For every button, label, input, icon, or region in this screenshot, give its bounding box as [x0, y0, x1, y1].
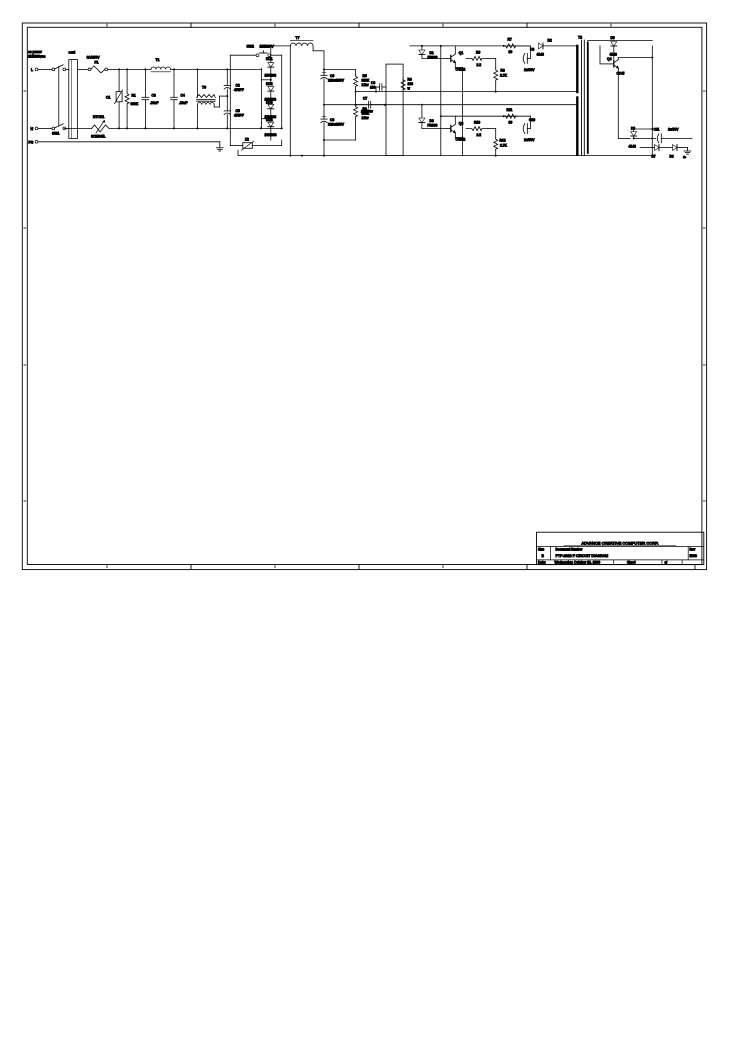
- title block frame: [537, 532, 704, 564]
- svg-text:R8: R8: [501, 69, 505, 73]
- resistor R9 330K: [354, 105, 358, 119]
- wire HV rail B: [356, 104, 577, 106]
- svg-text:D2: D2: [548, 39, 552, 43]
- svg-text:Wednesday, October 13, 1999: Wednesday, October 13, 1999: [555, 560, 601, 564]
- capacitor C10 1u/50V: [496, 128, 521, 130]
- svg-text:de: de: [683, 155, 687, 159]
- zone tick marks left: [24, 90, 26, 92]
- resistor R12 2.7K: [494, 137, 498, 151]
- wire Q1 collector: [454, 46, 456, 54]
- node L2: [126, 68, 128, 70]
- wire N to SW1: [38, 127, 52, 129]
- svg-text:.33uF: .33uF: [150, 101, 158, 105]
- terminal N: [35, 127, 38, 130]
- resistor R6 2.2: [463, 57, 472, 59]
- connector cord: [69, 60, 78, 139]
- wire C7 to drive transformer: [385, 104, 386, 106]
- wire HV rail A: [356, 91, 577, 93]
- svg-text:39: 39: [509, 121, 513, 125]
- svg-text:SW1: SW1: [52, 132, 59, 136]
- node L1: [118, 68, 120, 70]
- wire HV mid rail: [324, 104, 356, 106]
- svg-text:R4: R4: [408, 78, 412, 82]
- svg-text:Date:: Date:: [538, 560, 546, 564]
- svg-text:.33uF: .33uF: [179, 101, 187, 105]
- resistor R7 39: [504, 44, 518, 48]
- ground aux: [687, 147, 689, 150]
- wire N line through doubler: [192, 127, 282, 129]
- terminal FG: [35, 140, 38, 143]
- switch SW1 link: [58, 66, 60, 125]
- svg-text:4148: 4148: [537, 53, 545, 57]
- wire bridge left rail: [261, 68, 263, 127]
- node L3: [144, 68, 146, 70]
- node bottom bus 1: [289, 155, 291, 157]
- wire T2 primary bottom: [576, 155, 578, 156]
- capacitor C2 470PF: [226, 69, 228, 85]
- svg-text:R1: R1: [132, 94, 136, 98]
- svg-text:FR906: FR906: [428, 56, 438, 60]
- svg-text:R6: R6: [476, 51, 480, 55]
- svg-text:D5: D5: [611, 36, 615, 40]
- svg-text:Z2: Z2: [245, 138, 249, 142]
- wire aux emitter row: [618, 147, 640, 149]
- transformer T2 core: [581, 40, 583, 156]
- capacitor C7 1u/400v: [356, 104, 367, 106]
- resistor R4 100: [401, 78, 405, 92]
- svg-text:C3: C3: [152, 94, 156, 98]
- wire vertical bus A: [440, 46, 442, 156]
- svg-text:R10: R10: [474, 121, 480, 125]
- wire T2 primary top: [530, 45, 577, 47]
- svg-text:Rev: Rev: [690, 547, 696, 551]
- transformer T2 secondary winding: [587, 43, 589, 153]
- wire Q4 emitter down: [617, 68, 619, 138]
- capacitor C8A 1u/50V: [496, 57, 521, 59]
- node N2: [126, 127, 128, 129]
- svg-text:4148: 4148: [629, 145, 637, 149]
- svg-text:FR906: FR906: [428, 124, 438, 128]
- svg-text:PTP-2018 F CIRCUIT DIAGRAM: PTP-2018 F CIRCUIT DIAGRAM: [556, 554, 609, 558]
- wire Q1 base line: [422, 57, 447, 59]
- resistor R1 680K: [126, 69, 128, 91]
- svg-text:C5: C5: [236, 109, 240, 113]
- svg-text:ENG: ENG: [690, 554, 698, 558]
- diode D1 FR906: [421, 46, 423, 50]
- resistor R10 2.2: [466, 127, 488, 131]
- svg-text:39: 39: [509, 50, 513, 54]
- svg-text:Q1: Q1: [459, 51, 464, 55]
- svg-text:115/230vac: 115/230vac: [28, 55, 46, 59]
- wire SW2 left down: [230, 54, 256, 56]
- svg-text:T1: T1: [156, 58, 160, 62]
- svg-text:DD4: DD4: [266, 118, 273, 122]
- svg-text:D1: D1: [430, 51, 434, 55]
- wire connector to fuse F1: [78, 68, 89, 70]
- svg-text:R7: R7: [508, 38, 512, 42]
- diode D8 4148: [673, 145, 678, 151]
- wire Q3 base line: [422, 128, 447, 130]
- svg-text:ac power: ac power: [28, 50, 43, 54]
- svg-text:C11: C11: [654, 128, 660, 132]
- svg-text:Document Number: Document Number: [556, 547, 584, 551]
- svg-text:680K: 680K: [131, 102, 140, 106]
- capacitor C9 100: [382, 86, 386, 88]
- svg-text:C1: C1: [106, 96, 110, 100]
- wire Q1 emitter: [454, 63, 456, 68]
- transformer T6 secondary: [198, 103, 215, 105]
- border frame inner: [27, 27, 702, 564]
- terminal L: [35, 68, 38, 71]
- svg-text:330K: 330K: [362, 79, 371, 83]
- svg-text:D7: D7: [652, 155, 656, 159]
- svg-text:DD2: DD2: [266, 82, 273, 86]
- diode D3 FR906: [421, 105, 423, 118]
- wire right vertical bus: [651, 46, 653, 156]
- node doubler top: [226, 68, 228, 70]
- svg-text:470PF: 470PF: [234, 114, 244, 118]
- wire Q4 collector to right bus: [617, 58, 619, 60]
- wire R6 to R8: [488, 57, 496, 59]
- svg-text:of: of: [665, 560, 668, 564]
- node doubler mid: [226, 95, 228, 97]
- fuse F1: [88, 68, 91, 71]
- capacitor C8 220u/250V: [322, 115, 326, 117]
- resistor R11 39: [504, 114, 518, 118]
- svg-text:SCK045L: SCK045L: [91, 135, 106, 139]
- svg-text:1/2w: 1/2w: [362, 83, 370, 87]
- wire D6 to C11: [634, 137, 656, 139]
- svg-text:C945: C945: [617, 72, 625, 76]
- svg-text:C9: C9: [371, 81, 375, 85]
- node N1: [118, 127, 120, 129]
- border frame outer: [22, 23, 706, 570]
- svg-text:R11: R11: [507, 108, 513, 112]
- wire N line to bridge: [109, 127, 192, 129]
- wire T6 primary to L line: [196, 69, 198, 97]
- svg-text:D3: D3: [430, 119, 434, 123]
- resistor R8 2.7K: [494, 68, 498, 83]
- wire Q1 emitter bus: [462, 137, 464, 139]
- svg-text:100: 100: [370, 86, 376, 90]
- svg-text:FG: FG: [29, 140, 34, 144]
- zone tick marks bottom: [190, 565, 192, 570]
- svg-text:R5: R5: [363, 74, 367, 78]
- svg-text:C4242: C4242: [456, 68, 466, 72]
- svg-text:1/2w: 1/2w: [362, 116, 370, 120]
- wire T7 left down primary bus: [289, 46, 291, 156]
- svg-text:1u/50V: 1u/50V: [524, 138, 535, 142]
- svg-text:cord: cord: [69, 51, 76, 55]
- wire SW1 to connector: [66, 68, 69, 70]
- wire R5 top rail: [324, 68, 356, 70]
- wire Q3 emitter: [454, 133, 456, 138]
- wire bridge stub bottom: [262, 118, 271, 120]
- drive transformer T3 primary box: [386, 64, 403, 156]
- svg-text:1u/50V: 1u/50V: [524, 68, 535, 72]
- wire SW2 right: [271, 54, 282, 56]
- node N4: [173, 127, 175, 129]
- title block rev cell: [687, 547, 689, 560]
- wire aux diodes row: [640, 147, 655, 149]
- diode D5 4148: [611, 42, 617, 47]
- svg-text:C4242: C4242: [456, 138, 466, 142]
- wire T6 secondary to N line: [196, 105, 198, 129]
- transformer T2 primary winding: [576, 46, 578, 92]
- svg-text:1u/50V: 1u/50V: [668, 128, 679, 132]
- resistor R5 330K: [355, 69, 357, 74]
- switch SW1 pole 2: [52, 127, 55, 130]
- zone tick marks top: [190, 23, 192, 27]
- svg-text:NTCR1: NTCR1: [93, 115, 104, 119]
- wire T2 secondary top to D5: [587, 41, 589, 44]
- svg-text:C8: C8: [330, 118, 334, 122]
- wire vertical bus B: [462, 68, 464, 156]
- transistor Q1 C4242: [450, 55, 452, 61]
- wire primary bottom bus: [238, 155, 652, 157]
- capacitor C4 .33uF: [173, 69, 175, 97]
- svg-text:T2: T2: [578, 36, 582, 40]
- wire bridge stub top: [262, 79, 271, 81]
- wire L line to bridge: [108, 68, 151, 70]
- svg-text:T7: T7: [296, 36, 300, 40]
- svg-text:115/230V: 115/230V: [260, 44, 275, 48]
- svg-text:Sheet: Sheet: [627, 560, 635, 564]
- transformer T6 core: [197, 98, 216, 100]
- svg-text:C7: C7: [363, 97, 367, 101]
- svg-text:C4: C4: [181, 94, 185, 98]
- switch SW1 pole 1: [52, 68, 55, 71]
- svg-text:220u/200V: 220u/200V: [328, 79, 345, 83]
- wire T1 to C4: [171, 68, 192, 70]
- svg-text:L: L: [31, 68, 33, 72]
- wire R7 left drop: [503, 45, 505, 47]
- svg-text:1N4808: 1N4808: [265, 74, 277, 78]
- svg-text:100: 100: [408, 82, 414, 86]
- wire top rail left end: [409, 45, 411, 47]
- svg-text:2.2: 2.2: [477, 63, 482, 67]
- wire L line into doubler: [192, 68, 262, 70]
- svg-text:F1: F1: [95, 61, 99, 65]
- svg-text:T6: T6: [202, 86, 206, 90]
- svg-text:2.7K: 2.7K: [500, 144, 508, 148]
- transistor Q4 C945: [613, 61, 615, 67]
- svg-text:Q4: Q4: [607, 57, 612, 61]
- node N6: [260, 127, 262, 129]
- svg-text:470PF: 470PF: [234, 88, 244, 92]
- node L4: [173, 68, 175, 70]
- diode D2 4148: [530, 45, 536, 47]
- capacitor C3 .33uF: [144, 69, 146, 97]
- wire T7 right to C6: [312, 46, 314, 51]
- svg-text:6A/250V: 6A/250V: [87, 56, 101, 60]
- node N5: [226, 127, 228, 129]
- title block row lines: [537, 546, 704, 548]
- wire R10 to R12: [488, 128, 496, 130]
- svg-text:SW2: SW2: [247, 44, 254, 48]
- node N3: [144, 127, 146, 129]
- svg-text:Size: Size: [538, 547, 544, 551]
- svg-text:C2: C2: [236, 84, 240, 88]
- title block size cell: [550, 547, 552, 560]
- wire bridge top to T7 line: [270, 46, 272, 61]
- svg-text:1u/400v: 1u/400v: [361, 110, 373, 114]
- wire snubber return: [517, 45, 530, 47]
- svg-text:R12: R12: [500, 139, 506, 143]
- wire Q4 base: [600, 63, 610, 65]
- svg-text:C6: C6: [330, 74, 334, 78]
- svg-text:D6: D6: [631, 127, 635, 131]
- wire FG earth line: [38, 141, 220, 143]
- svg-text:4148: 4148: [610, 53, 618, 57]
- wire T6 right lead: [213, 105, 215, 107]
- wire L to SW1: [38, 68, 52, 70]
- svg-text:DD1: DD1: [266, 57, 273, 61]
- svg-text:N: N: [31, 127, 34, 131]
- svg-text:C10: C10: [529, 118, 535, 122]
- wire top to right bus: [620, 40, 652, 42]
- svg-text:DD3: DD3: [266, 100, 273, 104]
- node bottom bus 2: [301, 155, 303, 157]
- svg-text:2.2: 2.2: [477, 133, 482, 137]
- diode D6 4148: [618, 137, 630, 139]
- wire Q3 collector: [454, 116, 456, 124]
- capacitor C5 470PF: [224, 110, 230, 112]
- svg-text:220u/250V: 220u/250V: [328, 123, 345, 127]
- diode D7 4148: [655, 145, 660, 151]
- svg-text:ADVANCE CREATIVE COMPUTER CORP: ADVANCE CREATIVE COMPUTER CORP.: [581, 540, 658, 545]
- zone tick marks right: [703, 90, 705, 92]
- ground bridge: [219, 142, 221, 145]
- svg-text:2.7K: 2.7K: [500, 74, 508, 78]
- transistor Q3 C4242: [450, 125, 452, 131]
- svg-text:D8: D8: [670, 155, 674, 159]
